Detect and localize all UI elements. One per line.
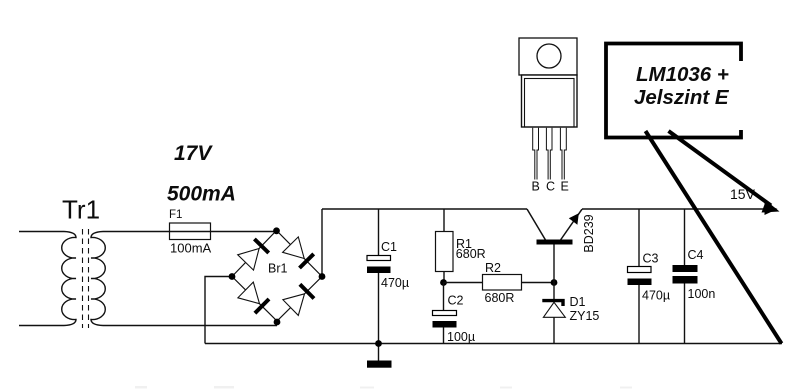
capacitor C1 wires xyxy=(378,209,380,361)
wire node to R2 xyxy=(444,282,483,284)
svg-text:470µ: 470µ xyxy=(381,276,409,290)
transformer Tr1 secondary winding xyxy=(91,232,105,326)
bottom rail xyxy=(205,343,782,345)
box LM1036 outline xyxy=(606,44,741,138)
diode BL xyxy=(238,282,260,304)
svg-text:R2: R2 xyxy=(485,261,501,275)
capacitor C1 bottom plate xyxy=(367,267,391,274)
TO-220 tab xyxy=(519,38,577,75)
svg-text:B: B xyxy=(532,180,540,194)
zener D1 wires xyxy=(553,283,555,344)
TO-220 body outer xyxy=(522,75,578,127)
transistor Q1 base bar xyxy=(537,240,573,245)
capacitor C4 wires xyxy=(684,209,686,344)
transistor Q1 collector lead xyxy=(527,209,546,240)
node bottom xyxy=(274,319,281,326)
wire bridge left node to bottom rail xyxy=(205,277,232,344)
node top xyxy=(273,227,280,234)
node C1-ground xyxy=(375,340,382,347)
diode TL xyxy=(238,249,259,271)
bridge Br1 frame xyxy=(232,231,322,322)
svg-text:100µ: 100µ xyxy=(447,330,475,344)
arrow box to ground rail xyxy=(646,131,782,344)
svg-text:470µ: 470µ xyxy=(642,289,670,303)
node right xyxy=(319,273,326,280)
transistor Q1 emitter lead xyxy=(561,209,583,240)
top rail left segment xyxy=(322,208,527,210)
svg-text:C4: C4 xyxy=(688,248,704,262)
diode BR xyxy=(283,294,305,316)
TO-220 leg C xyxy=(546,128,552,180)
svg-text:LM1036 +: LM1036 + xyxy=(636,63,729,86)
svg-text:Jelszint E: Jelszint E xyxy=(634,86,730,109)
transformer Tr1 primary winding xyxy=(62,232,76,326)
ground bar xyxy=(367,361,392,368)
wire primary top xyxy=(19,231,64,233)
wire secondary bottom to bridge bottom node xyxy=(103,325,277,327)
svg-text:C2: C2 xyxy=(448,294,464,308)
fuse F1 xyxy=(170,223,211,240)
svg-text:C3: C3 xyxy=(643,252,659,266)
svg-text:100mA: 100mA xyxy=(170,241,212,256)
top rail right segment xyxy=(582,208,767,210)
capacitor C1 top plate xyxy=(367,256,391,261)
svg-text:ZY15: ZY15 xyxy=(570,309,600,323)
svg-text:17V: 17V xyxy=(174,142,213,165)
svg-text:500mA: 500mA xyxy=(167,183,236,206)
capacitor C2 wires xyxy=(443,283,445,344)
TO-220 body inner xyxy=(525,79,575,128)
svg-text:680R: 680R xyxy=(456,247,486,261)
svg-text:E: E xyxy=(561,180,569,194)
transformer core dashed lines xyxy=(83,229,89,328)
capacitor C3 wires xyxy=(638,209,640,344)
diode TR xyxy=(283,237,305,259)
node R2-base-D1 xyxy=(551,279,558,286)
svg-text:C1: C1 xyxy=(381,240,397,254)
TO-220 hole xyxy=(537,44,561,68)
resistor R2 xyxy=(483,275,522,291)
arrow box to 15V xyxy=(669,131,772,206)
wire bridge right node up to rail xyxy=(321,209,323,277)
capacitor C2 bottom plate xyxy=(433,321,457,328)
zener D1 cathode bar xyxy=(542,301,563,306)
wire secondary top to bridge xyxy=(103,231,277,233)
svg-text:680R: 680R xyxy=(485,291,515,305)
resistor R1 wires xyxy=(443,209,445,283)
svg-text:D1: D1 xyxy=(570,295,586,309)
zener D1 triangle xyxy=(543,302,565,317)
capacitor C2 top plate xyxy=(433,311,457,316)
node R1-C2-R2 xyxy=(440,279,447,286)
svg-text:Br1: Br1 xyxy=(268,262,288,276)
resistor R1 xyxy=(436,232,454,272)
capacitor C3 bottom plate xyxy=(628,279,652,286)
capacitor C4 bottom plate xyxy=(673,276,698,284)
transistor Q1 emitter arrowhead xyxy=(569,213,579,225)
svg-text:C: C xyxy=(546,180,555,194)
15V arrowhead xyxy=(765,203,778,215)
wire R2 to base node xyxy=(522,282,555,284)
arrowhead to 15V xyxy=(762,201,780,213)
TO-220 leg E xyxy=(560,128,566,180)
svg-text:Tr1: Tr1 xyxy=(62,195,100,225)
wire primary bottom xyxy=(19,325,64,327)
capacitor C3 top plate xyxy=(628,267,652,273)
svg-text:BD239: BD239 xyxy=(582,214,596,252)
transistor Q1 base lead xyxy=(553,245,555,283)
svg-text:100n: 100n xyxy=(688,287,716,301)
capacitor C4 top plate xyxy=(673,265,698,272)
svg-text:F1: F1 xyxy=(169,209,182,221)
node left xyxy=(229,273,236,280)
svg-text:15V: 15V xyxy=(730,186,756,202)
TO-220 leg B xyxy=(533,128,539,180)
faint caption remnants xyxy=(135,386,632,389)
